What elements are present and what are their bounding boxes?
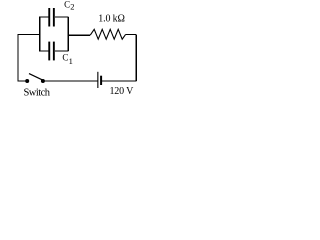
wire: switch left lead <box>18 80 28 82</box>
battery B1 long plate <box>97 72 98 88</box>
wire: resistor to top-right corner <box>125 34 136 36</box>
background <box>0 0 174 108</box>
wire: C1 left lead <box>39 50 48 52</box>
svg-text:2: 2 <box>70 2 74 12</box>
wire: C2 left lead <box>39 16 48 18</box>
wire: capacitor bank right rail <box>67 17 69 51</box>
battery B1 short thick plate <box>100 76 102 85</box>
svg-text:120 V: 120 V <box>110 86 135 97</box>
wire: C1 right lead <box>55 50 69 52</box>
wire: capacitor bank left rail <box>39 17 41 51</box>
switch S1 right contact dot <box>41 79 45 83</box>
svg-text:1: 1 <box>69 56 73 66</box>
capacitor C1 <box>48 42 55 61</box>
resistor R1 zigzag <box>90 29 125 39</box>
wire: battery right lead <box>102 80 137 82</box>
capacitor C2 <box>48 8 55 27</box>
svg-text:C: C <box>62 52 68 62</box>
switch S1 left contact dot <box>25 79 29 83</box>
svg-text:Switch: Switch <box>24 88 51 99</box>
wire: C2 right lead <box>55 16 69 18</box>
svg-text:C: C <box>64 0 70 9</box>
switch S1 blade <box>29 74 42 80</box>
wire: middle output horizontal <box>68 34 90 36</box>
wire: left vertical <box>17 34 19 81</box>
svg-text:1.0 kΩ: 1.0 kΩ <box>98 13 125 24</box>
wire: top-left feeder horizontal <box>18 33 41 35</box>
wire: right vertical <box>135 35 137 81</box>
wire: battery left lead <box>44 80 97 82</box>
